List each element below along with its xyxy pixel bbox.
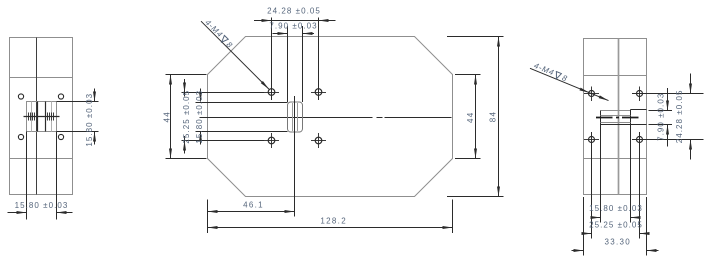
svg-text:7.90 ±0.03: 7.90 ±0.03 — [269, 22, 317, 31]
right view dim 33.30 arrows — [574, 249, 584, 252]
middle view leader line 4-M4 — [201, 21, 269, 89]
middle view dim 25.25 extension line bottom (hole row) — [182, 140, 265, 142]
middle view dim 15.80 dimension line stubs — [200, 89, 202, 102]
middle view dim 44 right extension lines — [455, 74, 481, 76]
middle view hole bottom-left with crosshair — [268, 137, 275, 144]
middle view dim 24.28 dimension line — [254, 20, 336, 22]
left view dim 15.80 bottom extension line right — [56, 132, 58, 220]
middle view dim 25.25 arrows — [183, 83, 186, 93]
right view hole bottom-left with crosshair — [589, 137, 595, 143]
middle view dim 44 left arrows — [169, 75, 172, 85]
right view slot thick dashed centerline — [596, 117, 613, 119]
middle view leader text 4-M4 depth 8 — [202, 17, 235, 50]
right view dim 24.28 dimension line stubs — [690, 74, 692, 94]
middle view slot barrel right tangent — [297, 103, 299, 131]
middle view slot barrel left tangent — [292, 103, 294, 131]
svg-text:25.25 ±0.05: 25.25 ±0.05 — [589, 221, 643, 230]
right view lower band line — [584, 158, 647, 160]
right view hole top-right with crosshair — [637, 91, 643, 97]
middle view dim 44 left extension lines — [166, 74, 207, 76]
right view slot barrel bottom edge — [601, 124, 631, 126]
middle view dim 15.80 extension line top (slot tangent) — [196, 102, 288, 104]
middle view dim 84 arrows — [497, 37, 500, 47]
middle view dim 7.90 dimension line — [273, 33, 288, 35]
middle view dim 44 left dimension line — [170, 75, 172, 159]
middle view dim 7.90 arrows — [278, 32, 288, 35]
right view leader arrows — [579, 88, 589, 93]
middle view slot vertical centerline / 46.1 extension — [294, 96, 296, 217]
svg-text:44: 44 — [466, 111, 475, 123]
right view slot barrel inner line lower — [601, 122, 631, 124]
middle view dim 15.80 extension line bottom (slot tangent) — [196, 131, 288, 133]
svg-text:33.30: 33.30 — [605, 238, 632, 247]
middle view dim 84 dimension line — [498, 37, 500, 197]
middle view slot barrel outline — [288, 102, 303, 132]
right view leader line 4-M4 — [530, 68, 609, 100]
right view dim 15.80 arrows — [591, 216, 601, 219]
svg-text:7.90 ±0.03: 7.90 ±0.03 — [657, 93, 666, 141]
right view dim 15.80 extension lines (slot edges) — [600, 125, 602, 223]
svg-text:44: 44 — [162, 111, 171, 123]
left view full-height slot edge line — [36, 38, 38, 195]
left view boss center band right edge — [45, 102, 47, 132]
right view hole bottom-right with crosshair — [637, 137, 643, 143]
right view dim 25.25 dimension line — [582, 233, 592, 235]
svg-text:15.80 ±0.03: 15.80 ±0.03 — [195, 90, 204, 144]
middle view hole top-left vertical crosshair / 24.28 extension — [271, 18, 273, 101]
right view full-height slot edge line — [618, 39, 620, 195]
svg-text:24.28 ±0.05: 24.28 ±0.05 — [675, 90, 684, 144]
left view hole top-left — [18, 94, 23, 99]
middle view dim 46.1 arrows — [208, 210, 218, 213]
svg-text:84: 84 — [488, 111, 497, 123]
right view dim 33.30 dimension line — [572, 250, 584, 252]
middle view leader arrow — [261, 81, 269, 89]
right view dim 7.90 arrows — [666, 101, 669, 111]
svg-text:128.2: 128.2 — [320, 217, 347, 226]
middle view dim 15.80 arrows — [199, 92, 202, 102]
left view dim 15.80 right dimension line stubs — [94, 89, 96, 102]
left view hole bottom-left — [18, 134, 23, 139]
middle view dim 25.25 dimension line stubs — [184, 79, 186, 97]
right view hole top-left with crosshair — [589, 91, 595, 97]
right view leader text 4-M4 depth 8 — [532, 61, 570, 84]
left view boss outline — [27, 102, 57, 132]
left view dim 15.80 right extension lines — [57, 101, 99, 103]
middle view dim 128.2 extension line right — [452, 200, 454, 234]
right view slot barrel top edge — [601, 110, 631, 112]
middle view hole top-right vertical crosshair / 24.28 extension — [318, 18, 320, 101]
right view upper band line — [584, 75, 647, 77]
left view dim 15.80 right arrows — [93, 92, 96, 102]
svg-text:15.80 ±0.03: 15.80 ±0.03 — [85, 93, 94, 147]
middle view hole bottom-right with crosshair — [315, 137, 322, 144]
left view hole bottom-right — [58, 134, 63, 139]
left view boss right tangent line — [51, 102, 53, 132]
right view hole bottom-right horizontal crosshair / 24.28 extension — [632, 139, 704, 141]
right view dim 24.28 arrows — [689, 84, 692, 94]
middle view dim 44 right arrows — [474, 75, 477, 85]
middle view dim 128.2 arrows — [208, 226, 218, 229]
middle view dim 25.25 extension line top (hole row) — [182, 92, 265, 94]
right view slot barrel right edge — [630, 110, 632, 125]
right view slot tab top edge — [631, 109, 647, 111]
left view outer rectangle — [10, 38, 73, 195]
svg-text:25.25 ±0.05: 25.25 ±0.05 — [182, 90, 191, 144]
right view slot barrel left edge — [600, 111, 602, 125]
middle view hole top-right with crosshair — [315, 89, 322, 96]
svg-text:46.1: 46.1 — [243, 201, 264, 210]
left view upper band line — [10, 77, 73, 79]
left view thread hatch ticks right — [47, 113, 49, 121]
right view dim 7.90 dimension line stubs — [667, 88, 669, 111]
right view dim 25.25 arrows — [582, 232, 592, 235]
right view dim 33.30 extension lines — [583, 197, 585, 256]
middle view octagon outline — [208, 37, 453, 197]
middle view dim 24.28 arrows — [262, 19, 272, 22]
middle view dim 7.90 extension lines — [287, 26, 289, 102]
right view slot barrel inner line upper — [601, 115, 631, 117]
middle view dim 44 right dimension line — [475, 75, 477, 159]
svg-text:15.80 ±0.03: 15.80 ±0.03 — [15, 201, 69, 210]
middle view dim 128.2 dimension line — [208, 227, 453, 229]
left view thread hatch ticks left — [28, 113, 30, 121]
right view slot tab bottom edge — [631, 124, 647, 126]
left view hole top-right — [58, 94, 63, 99]
right view hole top-right horizontal crosshair / 24.28 extension — [632, 93, 704, 95]
left view boss center band left edge — [37, 102, 39, 132]
right view dim 25.25 extension lines (hole columns) — [591, 132, 593, 239]
svg-text:15.80 ±0.03: 15.80 ±0.03 — [589, 204, 643, 213]
left view dim 15.80 bottom arrows — [17, 211, 27, 214]
middle view hole top-left with crosshair — [268, 89, 275, 96]
middle view dim 46.1 dimension line — [208, 211, 295, 213]
left view boss left tangent line — [31, 102, 33, 132]
left view dim 15.80 bottom dimension line — [8, 212, 27, 214]
left view lower band line — [10, 158, 73, 160]
middle view horizontal centerline — [200, 117, 373, 119]
left view boss horizontal centerline — [24, 116, 60, 118]
right view outer rectangle — [584, 39, 647, 195]
middle view dim 84 extension lines — [447, 36, 504, 38]
middle view dim 46.1 extension line left — [207, 200, 209, 234]
left view dim 15.80 bottom extension line left — [26, 132, 28, 220]
right view dim 7.90 extension lines — [649, 110, 673, 112]
right view dim 15.80 dimension line — [592, 217, 601, 219]
svg-text:24.28 ±0.05: 24.28 ±0.05 — [267, 7, 321, 16]
